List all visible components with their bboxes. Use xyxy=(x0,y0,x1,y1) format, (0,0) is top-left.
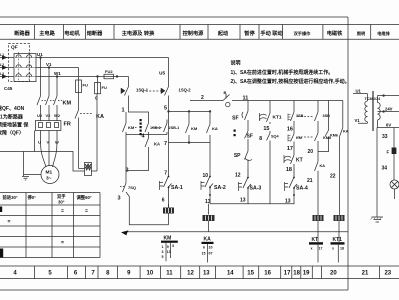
node L3 input arrow xyxy=(0,76,14,78)
svg-text:控制电源: 控制电源 xyxy=(183,29,205,37)
contact KM self-hold xyxy=(123,112,168,135)
contact KM6 column xyxy=(318,101,338,152)
svg-text:KM6: KM6 xyxy=(330,134,338,138)
svg-text:20: 20 xyxy=(330,271,337,277)
svg-text:1)、SA在前进位置时,机械手按周期连续工作。: 1)、SA在前进位置时,机械手按周期连续工作。 xyxy=(231,69,334,76)
wire phase B xyxy=(36,67,79,69)
svg-text:KA: KA xyxy=(154,142,160,147)
wire node 11 with button SB xyxy=(190,90,343,107)
svg-text:停0°: 停0° xyxy=(28,194,37,201)
svg-text:起动: 起动 xyxy=(217,29,228,37)
svg-text:24V: 24V xyxy=(385,107,393,112)
svg-text:=: = xyxy=(8,219,11,225)
selector contact SA-3 xyxy=(235,168,261,204)
svg-text:12: 12 xyxy=(235,173,241,179)
svg-text:KM8: KM8 xyxy=(323,136,331,140)
secondary top wire xyxy=(378,94,399,102)
svg-text:3SB: 3SB xyxy=(323,114,331,118)
mech link dashes SQ1-SQ2 xyxy=(142,90,163,92)
svg-text:8: 8 xyxy=(106,271,110,277)
svg-text:FU2: FU2 xyxy=(105,69,113,74)
relay contact KA (electromagnet circuit) xyxy=(75,93,104,169)
svg-text:U1: U1 xyxy=(37,52,43,57)
lamp EL xyxy=(390,180,399,199)
svg-text:1SQ-2: 1SQ-2 xyxy=(179,88,192,93)
svg-text:SA-3: SA-3 xyxy=(250,186,262,192)
svg-text:10: 10 xyxy=(147,271,154,277)
svg-text:KA: KA xyxy=(343,130,349,134)
frame bottom line xyxy=(0,289,348,291)
transformer TC primary feed V1 xyxy=(355,118,368,123)
wire node 22 col xyxy=(330,150,340,215)
transformer TC core xyxy=(372,91,373,131)
svg-text:V1: V1 xyxy=(355,118,361,123)
wire drops to KM xyxy=(41,58,58,97)
ground xyxy=(22,177,29,181)
fuse FU2 horizontal xyxy=(104,69,129,79)
svg-text:1: 1 xyxy=(162,245,164,249)
bottom bus wire 0 xyxy=(121,230,348,235)
motor M1 xyxy=(41,166,59,184)
svg-text:13: 13 xyxy=(285,199,291,205)
svg-text:调整60°: 调整60° xyxy=(77,194,92,201)
svg-text:x: x xyxy=(332,247,334,251)
svg-text:主电路: 主电路 xyxy=(39,29,55,37)
svg-text:13: 13 xyxy=(240,198,246,204)
wire node 7 bus xyxy=(169,142,211,144)
svg-text:前进30°: 前进30° xyxy=(3,194,18,201)
svg-text:5: 5 xyxy=(162,255,164,259)
svg-text:22: 22 xyxy=(330,174,336,180)
fuse FU3 xyxy=(95,75,107,100)
frame right border xyxy=(347,17,349,290)
svg-text:电缆排: 电缆排 xyxy=(377,30,390,37)
svg-text:10: 10 xyxy=(209,246,213,250)
svg-text:KT1: KT1 xyxy=(333,237,343,243)
svg-text:V1: V1 xyxy=(46,62,52,67)
svg-text:照明: 照明 xyxy=(357,30,365,37)
svg-text:断路器: 断路器 xyxy=(14,29,30,37)
coil KM xyxy=(163,204,174,225)
wire 3 to coil bottom xyxy=(126,192,169,225)
svg-text:18: 18 xyxy=(293,271,300,277)
svg-text:8: 8 xyxy=(259,136,262,142)
svg-text:KM: KM xyxy=(191,126,198,131)
svg-text:2)、SA在调整位置时,按相应按钮进行相应动作,手动。: 2)、SA在调整位置时,按相应按钮进行相应动作,手动。 xyxy=(231,78,350,85)
svg-text:18: 18 xyxy=(286,167,292,173)
svg-text:C45: C45 xyxy=(4,86,13,91)
svg-text:21: 21 xyxy=(307,178,313,184)
contactor KM main contacts xyxy=(37,96,62,113)
svg-text:x: x xyxy=(311,247,313,251)
svg-text:3~: 3~ xyxy=(46,176,52,182)
svg-text:1SQ-1: 1SQ-1 xyxy=(136,88,149,93)
svg-text:17: 17 xyxy=(284,271,291,277)
svg-text:20: 20 xyxy=(307,149,313,155)
svg-text:15: 15 xyxy=(247,271,254,277)
node L2 input arrow xyxy=(0,67,14,69)
svg-text:速QF、4ON: 速QF、4ON xyxy=(0,105,25,112)
svg-text:M1: M1 xyxy=(46,170,53,176)
secondary 24V wire xyxy=(378,107,399,113)
svg-text:15: 15 xyxy=(202,252,206,256)
timed contact KT1 xyxy=(260,101,282,133)
svg-text:16: 16 xyxy=(287,126,293,132)
svg-text:2SB-1: 2SB-1 xyxy=(169,126,180,130)
svg-text:16: 16 xyxy=(264,271,271,277)
svg-text:U5: U5 xyxy=(159,71,165,76)
fuse FU lamp branch xyxy=(387,128,397,181)
svg-text:7: 7 xyxy=(91,271,95,277)
svg-text:L3: L3 xyxy=(0,72,4,76)
wire node 17 / timed contact KT xyxy=(284,145,303,173)
svg-text:3SB: 3SB xyxy=(296,114,304,118)
svg-text:0: 0 xyxy=(95,96,98,101)
svg-text:SA-1: SA-1 xyxy=(171,185,183,191)
svg-text:主电源及 转换: 主电源及 转换 xyxy=(122,29,155,37)
svg-text:L1: L1 xyxy=(0,53,4,57)
svg-text:13: 13 xyxy=(203,271,210,277)
transformer TC secondary coil xyxy=(378,103,381,120)
header row grid xyxy=(0,25,399,40)
svg-text:说明: 说明 xyxy=(231,60,241,67)
notes heading xyxy=(231,60,241,67)
limit switch SQ-2 xyxy=(159,58,191,112)
svg-text:34: 34 xyxy=(382,166,388,172)
svg-text:15: 15 xyxy=(263,126,269,132)
contact table KT xyxy=(309,237,323,263)
svg-text:=: = xyxy=(61,209,64,215)
svg-text:故障〈QF〉: 故障〈QF〉 xyxy=(0,130,24,137)
svg-text:4: 4 xyxy=(13,271,17,277)
coil KT xyxy=(313,215,324,242)
svg-text:KA: KA xyxy=(204,236,212,242)
svg-text:FU: FU xyxy=(102,85,107,90)
node dot phase A xyxy=(39,56,41,58)
breaker QF pole contacts xyxy=(15,52,36,81)
svg-text:KT1: KT1 xyxy=(273,115,282,121)
svg-text:=: = xyxy=(85,209,88,215)
node dot phase C xyxy=(56,75,58,77)
svg-text:L2: L2 xyxy=(0,63,4,67)
button 2SB-1 xyxy=(133,120,179,135)
wire to electromagnet xyxy=(0,152,97,172)
ground right section xyxy=(371,217,384,222)
wire node 1 runs xyxy=(129,108,149,120)
thermal relay FR box xyxy=(35,121,61,131)
contact KA aux (col C) xyxy=(207,111,218,142)
svg-text:21: 21 xyxy=(362,271,369,277)
svg-text:KM: KM xyxy=(128,125,135,130)
bottom number row texts xyxy=(13,271,391,277)
fuse FU1 xyxy=(76,68,88,93)
svg-text:1SB-1: 1SB-1 xyxy=(150,126,161,130)
wires into motor xyxy=(41,131,58,167)
svg-text:暂停: 暂停 xyxy=(244,29,255,37)
header cell texts xyxy=(14,29,390,37)
frame top line xyxy=(0,16,348,18)
svg-text:KT: KT xyxy=(296,158,303,164)
wire fuse FU3 down xyxy=(96,94,98,171)
svg-text:KM: KM xyxy=(296,136,302,140)
svg-text:KA: KA xyxy=(212,126,218,131)
svg-text:6: 6 xyxy=(74,271,78,277)
svg-text:3: 3 xyxy=(172,244,174,248)
wire node 20 col xyxy=(307,141,325,215)
svg-text:V2: V2 xyxy=(46,113,52,118)
svg-text:33: 33 xyxy=(382,134,388,140)
wire FR box corner down xyxy=(34,131,36,152)
svg-text:KT: KT xyxy=(312,237,319,243)
svg-text:18: 18 xyxy=(340,247,344,251)
contact KA upper on rail 22 xyxy=(340,101,349,151)
foot switch contact xyxy=(120,171,136,192)
coil KA xyxy=(203,215,215,232)
pushbutton pair 3SB xyxy=(288,101,330,134)
wires FR to motor xyxy=(41,113,58,121)
svg-text:SA-4: SA-4 xyxy=(296,186,308,192)
contact SP xyxy=(234,147,252,168)
contact KA hold xyxy=(145,135,160,167)
rail col A continue xyxy=(168,111,170,176)
svg-text:3: 3 xyxy=(162,250,164,254)
svg-text:W1: W1 xyxy=(54,71,61,76)
svg-text:17: 17 xyxy=(287,146,293,152)
wire labels U V W xyxy=(38,140,59,145)
contact KM aux (col B) xyxy=(186,111,198,142)
svg-text:熔断器: 熔断器 xyxy=(87,29,103,37)
svg-text:SF: SF xyxy=(247,134,253,140)
svg-text:9: 9 xyxy=(127,271,131,277)
svg-text:5: 5 xyxy=(48,271,52,277)
wire phase A to top feeder xyxy=(36,57,169,59)
svg-text:1: 1 xyxy=(121,108,124,114)
wire phase C xyxy=(36,76,104,78)
button 1SB-1 xyxy=(145,120,161,135)
svg-text:12: 12 xyxy=(187,271,194,277)
svg-text:07: 07 xyxy=(209,252,213,256)
svg-text:7: 7 xyxy=(164,141,167,147)
svg-text:FU: FU xyxy=(83,83,88,88)
svg-text:11: 11 xyxy=(243,96,249,102)
svg-text:SP: SP xyxy=(234,153,241,159)
transformer TC primary feed U1 xyxy=(353,89,368,101)
svg-text:6: 6 xyxy=(203,246,205,250)
contact SF2 with dots xyxy=(234,128,253,147)
svg-text:=: = xyxy=(61,240,64,246)
node L1 input arrow xyxy=(0,57,14,59)
wire node 16 row xyxy=(287,124,331,145)
svg-text:手动 联动: 手动 联动 xyxy=(260,29,282,37)
svg-text:13: 13 xyxy=(167,250,171,254)
node dot phase B xyxy=(48,66,50,68)
svg-text:SQ4: SQ4 xyxy=(271,135,279,139)
svg-text:F: F xyxy=(387,150,390,155)
svg-text:6V: 6V xyxy=(386,122,391,127)
transformer TC primary coil xyxy=(365,101,368,122)
svg-text:10: 10 xyxy=(202,173,208,179)
contact table KM xyxy=(161,236,178,262)
bottom number row grid xyxy=(0,266,399,279)
svg-text:U1: U1 xyxy=(356,89,362,94)
selector dots column xyxy=(140,119,142,135)
svg-text:14: 14 xyxy=(227,271,234,277)
svg-text:U2: U2 xyxy=(37,113,43,118)
svg-text:双手操作: 双手操作 xyxy=(294,30,312,37)
svg-text:7SQ: 7SQ xyxy=(128,185,136,190)
contact SQ4 xyxy=(259,131,279,204)
svg-text:13: 13 xyxy=(205,199,211,205)
svg-text:6: 6 xyxy=(162,198,165,204)
svg-text:5: 5 xyxy=(164,106,167,112)
selector contact SA-4 xyxy=(285,168,308,205)
svg-text:SA-2: SA-2 xyxy=(214,185,226,191)
coil KT1 xyxy=(334,215,345,242)
contact SF xyxy=(232,101,248,129)
rail col C SA-2 xyxy=(201,143,295,215)
svg-text:须接地装置 保: 须接地装置 保 xyxy=(0,122,29,129)
svg-text:L1为断路器: L1为断路器 xyxy=(0,114,24,121)
svg-text:B: B xyxy=(224,90,227,95)
contact table KT1 xyxy=(331,237,345,263)
svg-text:FR: FR xyxy=(64,122,71,128)
svg-text:KA: KA xyxy=(320,164,326,168)
thermal relay FR elements xyxy=(39,123,59,128)
svg-text:2: 2 xyxy=(201,95,204,101)
svg-text:电动机: 电动机 xyxy=(64,29,80,37)
svg-text:电磁铁: 电磁铁 xyxy=(327,29,343,37)
secondary 6V wire 33 xyxy=(377,120,399,140)
node 5 bus xyxy=(169,110,211,112)
breaker QF dashed box xyxy=(9,44,30,82)
svg-text:30°: 30° xyxy=(58,200,65,205)
svg-text:3: 3 xyxy=(117,196,120,202)
contact table KA xyxy=(202,236,214,262)
motor ground wire xyxy=(24,152,42,177)
svg-text:W2: W2 xyxy=(54,113,61,118)
wire labels U2 V2 W2 xyxy=(37,113,61,118)
svg-text:QF: QF xyxy=(11,45,18,51)
svg-text:11: 11 xyxy=(166,271,173,277)
svg-text:KM: KM xyxy=(63,101,72,107)
svg-text:19: 19 xyxy=(303,271,310,277)
transformer ground wire xyxy=(376,128,378,218)
svg-text:SF: SF xyxy=(232,116,238,122)
svg-text:9: 9 xyxy=(167,245,169,249)
svg-text:23: 23 xyxy=(384,271,391,277)
svg-text:7: 7 xyxy=(164,171,167,177)
svg-text:17: 17 xyxy=(319,247,323,251)
wire 2 link xyxy=(126,135,149,172)
breaker QF pole box xyxy=(14,54,36,82)
electromagnet YA box xyxy=(85,163,92,176)
selector contact SA-1 xyxy=(160,171,183,208)
limit switch SQ-1 xyxy=(121,77,149,109)
